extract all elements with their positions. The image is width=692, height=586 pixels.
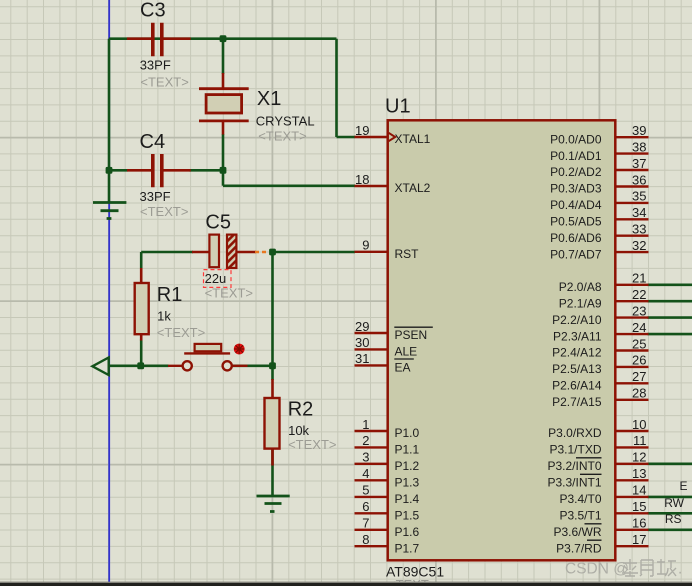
svg-text:<TEXT>: <TEXT> — [140, 204, 188, 219]
svg-text:P1.1: P1.1 — [395, 443, 420, 457]
svg-text:32: 32 — [632, 238, 646, 253]
svg-text:P2.6/A14: P2.6/A14 — [552, 379, 602, 393]
svg-text:10k: 10k — [288, 423, 309, 438]
svg-text:29: 29 — [355, 319, 369, 334]
svg-text:P2.1/A9: P2.1/A9 — [559, 296, 602, 310]
svg-text:38: 38 — [632, 139, 646, 154]
svg-text:4: 4 — [362, 466, 369, 481]
svg-text:P2.5/A13: P2.5/A13 — [552, 362, 602, 376]
svg-text:22u: 22u — [205, 271, 227, 286]
svg-text:EA: EA — [395, 361, 411, 375]
svg-text:P0.5/AD5: P0.5/AD5 — [550, 215, 602, 229]
svg-text:P0.6/AD6: P0.6/AD6 — [550, 231, 602, 245]
svg-text:U1: U1 — [385, 96, 411, 118]
svg-text:27: 27 — [632, 369, 646, 384]
svg-text:17: 17 — [632, 532, 646, 547]
svg-text:P0.0/AD0: P0.0/AD0 — [550, 132, 602, 146]
svg-text:P1.3: P1.3 — [395, 476, 420, 490]
svg-text:XTAL2: XTAL2 — [395, 181, 431, 195]
svg-text:P1.5: P1.5 — [395, 509, 420, 523]
svg-text:P2.2/A10: P2.2/A10 — [552, 313, 602, 327]
svg-text:P2.3/A11: P2.3/A11 — [553, 329, 602, 343]
svg-text:<TEXT>: <TEXT> — [157, 325, 205, 340]
svg-text:39: 39 — [632, 123, 646, 138]
svg-text:10: 10 — [632, 417, 646, 432]
svg-text:P2.4/A12: P2.4/A12 — [552, 346, 602, 360]
svg-text:11: 11 — [633, 433, 647, 448]
svg-text:P3.6/WR: P3.6/WR — [553, 525, 601, 539]
svg-text:8: 8 — [362, 532, 369, 547]
svg-text:CSDN @: CSDN @ — [565, 561, 629, 578]
svg-text:P1.0: P1.0 — [395, 426, 420, 440]
svg-text:37: 37 — [632, 156, 646, 171]
svg-text:16: 16 — [632, 516, 646, 531]
svg-text:P0.1/AD1: P0.1/AD1 — [550, 149, 602, 163]
svg-text:RW: RW — [664, 496, 684, 510]
svg-text:P3.5/T1: P3.5/T1 — [559, 509, 601, 523]
svg-text:24: 24 — [632, 320, 646, 335]
svg-text:<TEXT>: <TEXT> — [140, 75, 188, 90]
svg-text:P3.7/RD: P3.7/RD — [556, 541, 602, 555]
svg-text:P0.4/AD4: P0.4/AD4 — [550, 198, 602, 212]
svg-text:RS: RS — [665, 512, 682, 526]
svg-text:12: 12 — [632, 450, 646, 465]
svg-text:36: 36 — [632, 172, 646, 187]
svg-text:CRYSTAL: CRYSTAL — [256, 113, 315, 128]
svg-text:P0.2/AD2: P0.2/AD2 — [550, 165, 602, 179]
svg-text:34: 34 — [632, 205, 646, 220]
svg-text:14: 14 — [632, 483, 646, 498]
svg-text:P0.3/AD3: P0.3/AD3 — [550, 182, 602, 196]
svg-text:3: 3 — [362, 450, 369, 465]
svg-text:P2.0/A8: P2.0/A8 — [559, 280, 602, 294]
svg-text:ALE: ALE — [395, 345, 418, 359]
svg-text:<TEXT>: <TEXT> — [288, 437, 336, 452]
svg-text:19: 19 — [355, 123, 369, 138]
svg-text:XTAL1: XTAL1 — [395, 132, 431, 146]
svg-text:P1.7: P1.7 — [395, 541, 420, 555]
svg-text:P3.2/INT0: P3.2/INT0 — [547, 459, 601, 473]
svg-text:30: 30 — [355, 335, 369, 350]
svg-text:5: 5 — [362, 483, 369, 498]
svg-text:P3.4/T0: P3.4/T0 — [559, 492, 601, 506]
svg-text:P1.6: P1.6 — [395, 525, 420, 539]
svg-text:<TEXT>: <TEXT> — [258, 129, 306, 144]
svg-text:18: 18 — [355, 172, 369, 187]
svg-text:P3.1/TXD: P3.1/TXD — [549, 443, 601, 457]
svg-text:C4: C4 — [140, 131, 166, 153]
svg-text:15: 15 — [632, 499, 646, 514]
svg-text:35: 35 — [632, 189, 646, 204]
svg-text:C3: C3 — [140, 0, 166, 21]
svg-text:13: 13 — [632, 466, 646, 481]
svg-text:9: 9 — [362, 238, 369, 253]
svg-text:P2.7/A15: P2.7/A15 — [552, 395, 602, 409]
svg-text:X1: X1 — [257, 88, 281, 110]
svg-text:RST: RST — [395, 247, 420, 261]
svg-text:2: 2 — [362, 433, 369, 448]
svg-text:P0.7/AD7: P0.7/AD7 — [550, 247, 602, 261]
svg-text:P3.3/INT1: P3.3/INT1 — [547, 476, 601, 490]
svg-text:P1.2: P1.2 — [395, 459, 420, 473]
svg-text:1k: 1k — [157, 309, 171, 324]
svg-text:R2: R2 — [288, 398, 314, 420]
svg-text:1: 1 — [362, 417, 369, 432]
svg-text:R1: R1 — [157, 284, 183, 306]
svg-text:P3.0/RXD: P3.0/RXD — [548, 426, 602, 440]
svg-text:E: E — [679, 479, 687, 493]
svg-text:33PF: 33PF — [140, 58, 171, 73]
svg-text:31: 31 — [355, 351, 369, 366]
svg-text:21: 21 — [632, 271, 646, 286]
svg-text:C5: C5 — [205, 211, 231, 233]
svg-text:33PF: 33PF — [140, 189, 171, 204]
svg-text:26: 26 — [632, 353, 646, 368]
svg-text:6: 6 — [362, 499, 369, 514]
svg-text:.: . — [678, 561, 682, 578]
svg-text:7: 7 — [362, 516, 369, 531]
svg-text:25: 25 — [632, 336, 646, 351]
svg-text:PSEN: PSEN — [395, 328, 428, 342]
svg-text:22: 22 — [632, 287, 646, 302]
svg-text:28: 28 — [632, 386, 646, 401]
svg-text:P1.4: P1.4 — [395, 492, 420, 506]
svg-text:33: 33 — [632, 222, 646, 237]
svg-text:23: 23 — [632, 303, 646, 318]
